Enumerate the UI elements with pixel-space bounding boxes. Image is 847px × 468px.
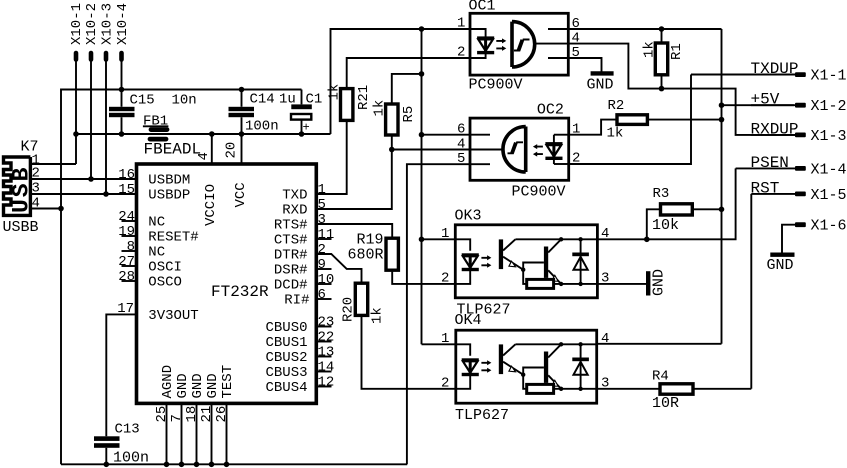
svg-text:USBDP: USBDP — [148, 188, 190, 204]
pin stub X10-4 — [119, 53, 124, 60]
svg-text:1k: 1k — [372, 100, 388, 117]
pin X1-5 — [795, 192, 806, 197]
svg-text:20: 20 — [224, 142, 240, 159]
node dot VCCUSB at OC2 pin6 — [419, 132, 425, 138]
svg-text:DSR#: DSR# — [274, 263, 308, 279]
svg-text:C14: C14 — [250, 92, 275, 108]
wire R5 bottom lead — [391, 135, 393, 150]
node dot OK4 diode top — [578, 342, 582, 346]
transistor Q2 in OK4 — [544, 352, 548, 383]
node dot R3 at +5V vertical — [719, 207, 725, 213]
pin X1-2 — [795, 103, 806, 108]
wire R19 to OK3 pin2 — [392, 270, 455, 284]
svg-text:GND: GND — [587, 76, 614, 93]
resistor R2 — [617, 115, 647, 125]
node dot OK3 Q2 collector — [559, 237, 563, 241]
node dot VCC rail x76 — [73, 131, 79, 137]
svg-text:OK3: OK3 — [455, 208, 482, 225]
svg-text:OC2: OC2 — [537, 101, 564, 118]
svg-text:3: 3 — [318, 212, 326, 228]
wire X10-4 down to GND top rail — [121, 61, 123, 90]
wire R20 to OK4 pin2 — [362, 315, 456, 388]
wire DTR# diagonal to R20 — [316, 254, 361, 283]
transistor Q1 in OK4 — [499, 344, 503, 374]
node dot R1 top — [659, 26, 665, 32]
node dot VCCUSB at R5 — [419, 71, 425, 77]
svg-text:5: 5 — [457, 151, 465, 167]
svg-text:19: 19 — [118, 224, 135, 240]
wire TXD to R21 — [316, 120, 346, 194]
node dot OK3 diode top — [578, 237, 582, 241]
node dot OK4 diode bottom — [578, 387, 582, 391]
svg-text:16: 16 — [118, 167, 135, 183]
svg-text:OK4: OK4 — [455, 312, 482, 329]
wire RTS# to R19 — [316, 224, 392, 238]
svg-text:5: 5 — [318, 197, 326, 213]
svg-text:8: 8 — [127, 239, 135, 255]
node dot VCC rail VCCIO — [209, 131, 215, 137]
svg-text:R2: R2 — [608, 98, 625, 114]
pin X1-3 — [795, 133, 806, 138]
svg-text:1k: 1k — [607, 126, 624, 142]
svg-text:R4: R4 — [652, 369, 669, 385]
resistor R20 — [355, 283, 367, 315]
wire R5 top to VCCUSB vertical — [392, 74, 422, 104]
svg-text:9: 9 — [318, 257, 326, 273]
resistor R3 — [647, 209, 661, 239]
node dot OK3 diode bottom — [578, 282, 582, 286]
svg-text:7: 7 — [169, 414, 185, 422]
wire OK3 to base resistor — [523, 270, 527, 284]
wire OK3 internal collector line — [515, 238, 597, 240]
svg-text:FT232R: FT232R — [211, 283, 269, 301]
node dot USB D- / X10-2 — [88, 176, 94, 182]
ground GND at OK3 pin3 rotated — [646, 271, 650, 295]
svg-text:GND: GND — [205, 373, 221, 398]
svg-text:+: + — [303, 121, 310, 135]
wire OK3 base of Q2 — [523, 263, 544, 270]
wire OK3 pin1 row — [422, 238, 456, 240]
svg-text:AGND: AGND — [160, 365, 176, 399]
svg-text:TEST: TEST — [220, 365, 236, 399]
svg-text:21: 21 — [199, 406, 215, 423]
resistor base-emitter OK4 — [527, 384, 554, 393]
pin X1-6 — [795, 222, 806, 227]
svg-text:VCCIO: VCCIO — [203, 184, 219, 226]
diode OK3 — [580, 239, 582, 284]
svg-text:CBUS4: CBUS4 — [265, 380, 307, 396]
capacitor C1 polarized — [301, 90, 303, 135]
LED OK3 — [462, 253, 479, 256]
resistor R1 — [655, 43, 667, 75]
schmitt trigger OC2 mirrored — [503, 127, 526, 173]
svg-text:CTS#: CTS# — [274, 233, 308, 249]
svg-text:24: 24 — [118, 209, 135, 225]
svg-text:RI#: RI# — [284, 293, 309, 309]
wire OK4 internal collector line — [515, 343, 596, 345]
svg-text:X1-5: X1-5 — [811, 187, 847, 204]
wire R2 to +5V vertical — [647, 119, 721, 121]
svg-text:VCC: VCC — [233, 182, 249, 207]
svg-text:R5: R5 — [401, 106, 417, 123]
svg-text:FBEADL: FBEADL — [144, 141, 202, 159]
svg-text:2: 2 — [441, 376, 449, 392]
wire OC2 pin6 row — [422, 134, 471, 136]
capacitor C13 — [94, 436, 120, 441]
svg-text:18: 18 — [184, 406, 200, 423]
svg-text:4: 4 — [457, 136, 465, 152]
node dot OK4 Q2 emitter — [559, 387, 563, 391]
wire X1-6 to GND — [782, 225, 795, 253]
ground GND at X1-6 — [770, 252, 794, 256]
pin stub X10-2 — [89, 53, 94, 60]
svg-text:DCD#: DCD# — [274, 278, 308, 294]
svg-text:GND: GND — [651, 269, 668, 296]
wire X10-3 down to USBDP row — [105, 61, 107, 194]
svg-text:X10-4: X10-4 — [115, 3, 131, 45]
wire X10-2 down to USBDM row — [90, 61, 92, 179]
svg-text:R21: R21 — [356, 85, 372, 110]
transistor Q2 in OK3 — [544, 247, 548, 278]
wire +5V vertical — [721, 29, 723, 344]
svg-text:100n: 100n — [113, 450, 149, 467]
svg-text:X1-4: X1-4 — [811, 161, 847, 178]
node dot R1 bottom — [659, 86, 665, 92]
node dot VCC rail C15 — [119, 131, 125, 137]
svg-text:R3: R3 — [653, 186, 670, 202]
wire OK4 to base resistor — [523, 375, 527, 389]
node dot VCC rail C14 — [239, 131, 245, 137]
wire OC2 pin5 to bottom GND rail — [407, 164, 470, 464]
svg-text:CBUS3: CBUS3 — [265, 365, 307, 381]
node dot VCC rail C1 — [299, 131, 305, 137]
svg-text:6: 6 — [318, 287, 326, 303]
svg-text:1: 1 — [457, 16, 465, 32]
LED arrows OC2 pointing left — [537, 147, 543, 155]
svg-text:TXD: TXD — [282, 188, 307, 204]
svg-text:22: 22 — [318, 329, 335, 345]
svg-text:X10-1: X10-1 — [69, 3, 85, 45]
svg-text:CBUS1: CBUS1 — [265, 335, 307, 351]
node dot OK3 Q2 emitter — [559, 282, 563, 286]
LED arrows OK4 — [481, 363, 487, 371]
transistor Q1 in OK3 — [499, 239, 503, 269]
svg-text:1k: 1k — [327, 84, 343, 101]
resistor R5 — [386, 104, 398, 135]
node dot C13 bottom — [104, 462, 110, 468]
wire VCC rail y134 — [76, 133, 331, 135]
node dot USB D+ / X10-3 — [103, 191, 109, 197]
svg-text:R1: R1 — [669, 43, 685, 60]
schmitt trigger OC1 — [512, 22, 535, 67]
node dot R3 junction — [644, 237, 650, 243]
svg-text:OSCO: OSCO — [148, 275, 182, 291]
pin stub X10-1 — [74, 53, 79, 60]
svg-text:10k: 10k — [652, 217, 679, 234]
svg-text:C1: C1 — [306, 92, 323, 108]
wire GND top rail and left vertical to bottom rail — [61, 90, 302, 465]
node dot OK3 emitter junction — [521, 268, 525, 272]
svg-text:TLP627: TLP627 — [455, 407, 509, 424]
svg-text:X10-2: X10-2 — [84, 3, 100, 45]
node dot USB GND — [58, 206, 64, 212]
svg-text:CBUS0: CBUS0 — [265, 320, 307, 336]
ground GND at OC1 pin5 — [591, 71, 614, 75]
node dot OK4 emitter junction — [521, 373, 525, 377]
svg-text:1: 1 — [441, 226, 449, 242]
svg-text:OSCI: OSCI — [148, 260, 182, 276]
node dot X10-4 / top rail — [119, 87, 125, 93]
svg-text:1: 1 — [441, 331, 449, 347]
wire VCCUSB vertical x421.5 — [421, 29, 423, 344]
transistor OK4 TLP627 box — [456, 330, 597, 403]
node dot VCCUSB at OC1 pin1 row — [419, 26, 425, 32]
node dot OK4 Q2 collector — [559, 342, 563, 346]
svg-text:6: 6 — [457, 122, 465, 138]
svg-text:1k: 1k — [370, 307, 386, 324]
svg-text:25: 25 — [154, 406, 170, 423]
svg-text:14: 14 — [318, 359, 335, 375]
svg-text:DTR#: DTR# — [274, 248, 308, 264]
svg-text:PC900V: PC900V — [469, 76, 523, 93]
svg-text:USBDM: USBDM — [148, 173, 190, 189]
svg-text:NC: NC — [148, 215, 165, 231]
pin X1-4 — [795, 166, 806, 171]
svg-text:26: 26 — [214, 406, 230, 423]
svg-text:RESET#: RESET# — [148, 230, 198, 246]
capacitor C15 — [109, 107, 135, 111]
transistor OK3 TLP627 box — [455, 225, 597, 298]
svg-text:17: 17 — [117, 301, 134, 317]
svg-text:OC1: OC1 — [469, 0, 496, 15]
svg-text:2: 2 — [441, 271, 449, 287]
svg-text:RTS#: RTS# — [274, 218, 308, 234]
LED OC1 — [477, 36, 494, 39]
svg-text:1: 1 — [318, 182, 326, 198]
svg-text:CBUS2: CBUS2 — [265, 350, 307, 366]
svg-text:NC: NC — [148, 245, 165, 261]
svg-text:10R: 10R — [652, 395, 679, 412]
svg-text:3V3OUT: 3V3OUT — [148, 308, 198, 324]
wire OK4 pin1 row — [422, 343, 456, 345]
svg-text:23: 23 — [318, 314, 335, 330]
node dot +5V — [719, 102, 725, 108]
wire X10-1 down to USB pin1 row — [75, 61, 77, 164]
svg-text:1k: 1k — [642, 41, 658, 58]
svg-text:28: 28 — [118, 269, 135, 285]
svg-text:13: 13 — [318, 344, 335, 360]
svg-text:R20: R20 — [341, 297, 357, 322]
svg-text:X1-2: X1-2 — [811, 98, 847, 115]
svg-text:12: 12 — [318, 374, 335, 390]
resistor R4 — [660, 384, 693, 394]
svg-text:RXD: RXD — [282, 203, 307, 219]
svg-text:PC900V: PC900V — [512, 183, 566, 200]
node dot RXD/R5/OC2 pin4 — [389, 147, 395, 153]
op-amp OC1 PC900V box — [470, 13, 568, 75]
pin stub X10-3 — [104, 53, 109, 60]
wire RXD to OC2 pin4 node — [316, 150, 392, 210]
svg-text:X10-3: X10-3 — [100, 3, 116, 45]
svg-text:X1-1: X1-1 — [811, 68, 847, 85]
node dot VCCUSB at OK3 pin1 — [419, 237, 425, 243]
wire R21 to OC1 pin2 — [347, 58, 470, 89]
wire GND bottom rail — [61, 463, 407, 465]
ferrite bead FB1 — [150, 130, 167, 140]
svg-text:C15 10n: C15 10n — [130, 93, 197, 109]
op-amp OC2 PC900V box — [470, 118, 569, 180]
svg-text:GND: GND — [767, 257, 794, 274]
svg-text:USBB: USBB — [3, 219, 39, 236]
node dot C14 top rail — [239, 87, 245, 93]
LED arrows OC1 — [496, 41, 502, 49]
IC U1 FT232R box — [137, 164, 317, 403]
wire RST vertical to R4 — [750, 194, 752, 389]
node dot R2 right — [719, 117, 725, 123]
svg-text:100n: 100n — [245, 119, 279, 135]
resistor base-emitter OK3 — [527, 279, 554, 288]
svg-text:GND: GND — [190, 373, 206, 398]
resistor R19 — [386, 238, 398, 270]
svg-text:11: 11 — [318, 227, 335, 243]
wire OC2 pin1 to R2 — [569, 120, 617, 135]
svg-text:C13: C13 — [115, 422, 140, 438]
pin X1-1 — [795, 72, 806, 77]
svg-text:X1-3: X1-3 — [811, 128, 847, 145]
svg-text:27: 27 — [118, 254, 135, 270]
resistor R21 — [341, 89, 353, 121]
diode OK4 — [580, 344, 582, 389]
svg-text:10: 10 — [318, 272, 335, 288]
LED OK4 — [462, 358, 479, 361]
wire 3V3OUT to C13 — [106, 314, 136, 436]
LED OC2 — [553, 135, 555, 164]
svg-text:15: 15 — [118, 182, 135, 198]
wire VCC rail up to OC1 pin1 row — [331, 29, 471, 134]
wire OK4 base of Q2 — [523, 368, 544, 375]
LED arrows OK3 — [481, 258, 487, 266]
capacitor C14 — [229, 107, 255, 111]
wire OC2 pin2 to TXDUP vertical — [569, 75, 691, 165]
wire OC2 pin4 row — [392, 149, 470, 151]
svg-text:X1-6: X1-6 — [811, 218, 847, 235]
svg-text:2: 2 — [457, 45, 465, 61]
svg-text:4: 4 — [196, 152, 212, 160]
svg-text:GND: GND — [175, 373, 191, 398]
svg-text:680R: 680R — [347, 247, 383, 264]
svg-text:2: 2 — [318, 242, 326, 258]
